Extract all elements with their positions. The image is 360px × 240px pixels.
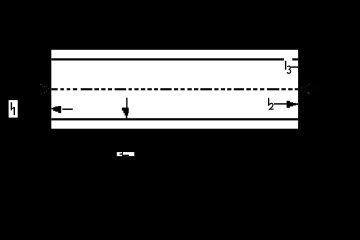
dash-dot centerline <box>52 88 299 90</box>
label I3 <box>285 61 291 74</box>
faint colored speckles left (antialias remnants of arrowhead) <box>40 84 51 94</box>
label I3 leader tick <box>291 66 298 67</box>
down arrow (current into bottom line, stepped head) <box>122 98 129 119</box>
top conductor line right segment <box>292 58 298 60</box>
label I1 (white box) <box>9 100 18 118</box>
faint colored speckles right (antialias remnants of arrowhead) <box>301 84 310 95</box>
label I2 <box>268 98 274 109</box>
I2 current arrow (pointing right, stepped head) <box>274 101 298 108</box>
slab body (white rectangle) <box>51 50 298 129</box>
I1 current arrow (pointing left, stepped head) <box>51 106 72 113</box>
top conductor line <box>51 58 284 60</box>
bottom conductor line <box>51 118 298 120</box>
caption fragment (tiny inverted text blob) <box>117 152 135 156</box>
